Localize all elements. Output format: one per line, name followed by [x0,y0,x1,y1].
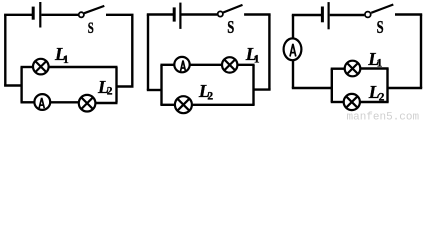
wire: c3 outer left vertical below ammeter [292,61,294,88]
wire: c2 outer left vertical [147,15,149,91]
wire: c2 battery to switch [182,13,218,15]
svg-text:2: 2 [207,91,213,103]
svg-text:S: S [227,17,234,37]
svg-text:S: S [377,17,384,37]
wire: c1 top branch left of L1 [21,66,34,68]
wire: c2 left connector to parallel block [147,89,162,91]
switch S pivot circle (circuit 3) [365,12,371,18]
battery B2 short plate [173,7,176,21]
svg-text:1: 1 [63,54,69,66]
switch S blade (circuit 3) [371,5,393,13]
svg-text:S: S [88,20,94,37]
battery B1 long plate [39,2,41,28]
wire: c3 outer left vertical above ammeter [292,15,294,38]
label L2 (circuit 3) [368,82,385,104]
wire: c2 right connector to parallel block [254,88,271,90]
wire: c2 parallel block left vertical [160,65,162,105]
wire: c1 parallel block right vertical [115,67,117,103]
wire: c3 battery to switch [330,14,365,16]
wire: c2 bottom branch right of L2 [192,104,255,106]
wire: c1 bottom branch between ammeter and L2 [50,101,79,103]
battery B3 short plate [321,7,324,23]
switch S blade (circuit 2) [223,5,242,13]
lamp L1 (circuit 3) [345,61,361,77]
wire: c1 right connector to parallel block [117,85,134,87]
battery B3 long plate [328,2,330,29]
ammeter A (circuit 3) [284,38,302,60]
wire: c3 top branch left of L1 [331,67,346,69]
ammeter A (circuit 1) [34,94,50,110]
lamp L2 (circuit 3) [344,94,360,110]
wire: c3 bottom branch right of L2 [359,101,388,103]
wire: c3 left connector to parallel block [292,87,332,89]
wire: c3 parallel block left vertical [331,69,333,102]
wire: c2 top branch between ammeter and L1 [189,64,222,66]
wire: c1 bottom branch right of L2 [95,102,117,104]
wire: c2 top branch right of L1 [237,64,255,66]
battery B1 short plate [32,7,35,20]
wire: c2 switch to top right corner [244,13,271,15]
lamp L2 (circuit 2) [175,96,192,113]
wire: c1 outer right vertical [131,15,133,87]
wire: c1 top left horizontal to battery [4,14,32,16]
wire: c2 bottom branch left of L2 [160,104,175,106]
switch S blade [84,6,104,13]
wire: c3 right connector to parallel block [388,87,423,89]
switch S pivot circle [79,12,84,17]
wire: c3 top left horizontal to battery [292,14,321,16]
label L1 (circuit 1) [54,44,69,66]
wire: c2 top left horizontal to battery [147,13,173,15]
wire: c2 parallel block right vertical [252,65,254,105]
wire: c3 bottom branch left of L2 [331,101,345,103]
label L2 (circuit 1) [97,77,113,98]
label L2 (circuit 2) [198,81,214,103]
battery B2 long plate [179,3,181,29]
ammeter A (circuit 2) [174,57,189,72]
wire: c2 outer right vertical [268,15,270,90]
lamp L1 (circuit 1) [33,59,49,75]
wire: c3 switch to top right corner [395,13,422,15]
wire: c2 top branch left of ammeter [160,64,174,66]
wire: c1 switch to top right corner [106,14,134,16]
wire: c1 outer left vertical [4,15,6,86]
svg-text:2: 2 [107,86,113,98]
switch S pivot circle (circuit 2) [218,11,223,16]
label L1 (circuit 2) [245,44,260,66]
wire: c3 parallel block right vertical [386,68,388,102]
wire: c3 outer right vertical [420,15,422,89]
lamp L2 (circuit 1) [79,95,96,112]
wire: c1 left connector to parallel block [4,84,22,86]
wire: c1 parallel block left vertical [20,67,22,103]
wire: c1 top branch right of L1 [48,66,117,68]
lamp L1 (circuit 2) [222,57,237,72]
svg-text:manfen5.com: manfen5.com [347,112,420,122]
wire: c1 battery to switch [41,14,78,16]
wire: c3 top branch right of L1 [360,67,389,69]
wire: c1 bottom branch left of ammeter [21,101,35,103]
label L1 (circuit 3) [367,49,382,69]
